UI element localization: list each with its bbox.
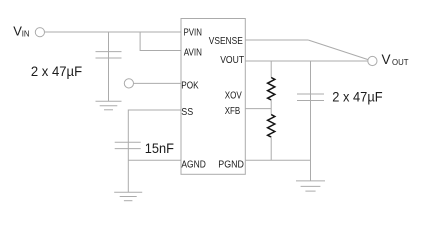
svg-text:OUT: OUT xyxy=(392,58,409,67)
svg-text:15nF: 15nF xyxy=(145,141,174,156)
ground GND2 xyxy=(114,192,142,200)
wire VIN to PVIN xyxy=(45,31,182,33)
wire VSENSE diagonal xyxy=(308,40,368,60)
svg-text:V: V xyxy=(382,52,391,67)
wire AGND xyxy=(128,159,181,161)
wire resistor bottom xyxy=(270,137,272,160)
svg-text:SS: SS xyxy=(181,107,193,118)
svg-text:IN: IN xyxy=(22,29,30,38)
terminal VIN circle xyxy=(35,28,44,37)
ground GND1 xyxy=(96,101,122,110)
svg-text:VSENSE: VSENSE xyxy=(209,36,243,47)
wire input cap branch xyxy=(108,32,110,101)
ground GND3 xyxy=(296,181,325,191)
op-amp U1 regulator body xyxy=(181,19,245,175)
svg-text:PGND: PGND xyxy=(218,160,244,171)
svg-text:XFB: XFB xyxy=(225,106,241,117)
svg-text:AVIN: AVIN xyxy=(184,48,202,59)
svg-text:XOV: XOV xyxy=(225,90,242,101)
svg-text:POK: POK xyxy=(181,80,198,91)
wire PGND xyxy=(245,159,310,161)
resistor R1 xyxy=(268,78,275,101)
wire output cap vertical xyxy=(310,61,312,181)
wire SS xyxy=(128,110,181,192)
wire between resistors xyxy=(270,100,272,115)
terminal VOUT circle xyxy=(368,56,377,65)
terminal POK circle xyxy=(124,79,133,88)
svg-text:2 x 47µF: 2 x 47µF xyxy=(31,64,82,79)
wire VSENSE horizontal xyxy=(245,39,308,41)
resistor R2 xyxy=(268,115,275,138)
wire XFB xyxy=(245,108,271,110)
capacitor C2 15nF plates xyxy=(115,141,141,143)
capacitor C3 2x47uF plates xyxy=(297,93,324,95)
wire VOUT xyxy=(245,60,368,62)
wire feedback vertical top xyxy=(270,61,272,78)
svg-text:PVIN: PVIN xyxy=(184,28,202,39)
wire AVIN branch xyxy=(140,32,181,51)
svg-text:VOUT: VOUT xyxy=(220,55,244,66)
wire POK xyxy=(134,82,182,84)
svg-text:AGND: AGND xyxy=(181,160,205,171)
svg-text:2 x 47µF: 2 x 47µF xyxy=(332,89,382,104)
capacitor C1 2x47uF plates xyxy=(96,51,122,53)
